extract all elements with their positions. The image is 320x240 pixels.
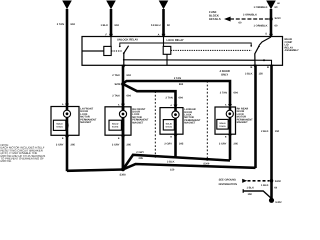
wire: 2 BLK 150 relay ground to G302 — [270, 65, 273, 200]
value label 2 GRY 295 — [112, 143, 132, 146]
wire through RH rear motor — [229, 107, 232, 135]
svg-text:SOLID: SOLID — [112, 123, 119, 126]
wire: unlock armature to pin at box bottom — [123, 53, 125, 65]
svg-text:G302: G302 — [275, 201, 282, 204]
wire: return bus LH front to splice — [67, 170, 123, 171]
svg-text:1 BLK: 1 BLK — [261, 184, 269, 187]
splice S302 — [270, 179, 282, 183]
svg-text:SOLID: SOLID — [166, 122, 173, 125]
svg-text:MAGNET: MAGNET — [184, 122, 195, 125]
svg-text:A: A — [62, 103, 64, 106]
ground G302 — [269, 198, 282, 204]
svg-text:DISTRIBUTION: DISTRIBUTION — [219, 183, 238, 186]
wire: 2 ORN/BLK 60 dashed off-page to fuse block — [224, 14, 270, 25]
pin B of RH rear motor — [225, 134, 232, 138]
wire: 2 TAN 694 branch to LH rear motor — [123, 84, 176, 107]
svg-text:SOLID: SOLID — [56, 123, 63, 126]
svg-text:60: 60 — [167, 24, 170, 27]
wire: 1 BLK 150 branch to ground — [243, 189, 271, 198]
svg-text:B: B — [118, 137, 120, 140]
svg-text:694: 694 — [127, 74, 132, 77]
svg-text:150: 150 — [259, 72, 264, 75]
value label 2 BLK 150 — [245, 72, 263, 75]
svg-text:1 ORN/BLK: 1 ORN/BLK — [254, 6, 268, 9]
wire: internal ground bus to right pin — [123, 59, 272, 65]
svg-text:295: 295 — [179, 142, 184, 145]
svg-text:MOTOR.: MOTOR. — [1, 159, 12, 163]
value label 1 BLK 694 — [101, 24, 120, 27]
svg-text:60: 60 — [277, 2, 280, 5]
svg-text:2 BLK: 2 BLK — [245, 72, 253, 75]
svg-text:2 BLK: 2 BLK — [261, 130, 269, 133]
value label 1 BLK 150 — [247, 184, 278, 196]
svg-text:2 TAN: 2 TAN — [165, 96, 172, 99]
pin B of LH rear motor — [170, 135, 177, 139]
wire: pin A to lock coil — [163, 37, 165, 47]
value label 1 ORN/BLK 60 (upper) — [254, 6, 278, 9]
wire: coil common to box edge — [82, 50, 104, 52]
svg-text:UNLOCK RELAY: UNLOCK RELAY — [117, 39, 138, 42]
value label 2 GRY 295 — [56, 143, 76, 146]
svg-text:STATE: STATE — [112, 126, 119, 129]
wire through LH rear motor — [174, 107, 177, 135]
value label 2 TAN 694 — [112, 74, 131, 77]
pin B of LH front motor — [62, 136, 69, 140]
svg-text:B: B — [62, 137, 64, 140]
splice S308 — [119, 168, 126, 177]
svg-text:150: 150 — [275, 130, 280, 133]
svg-text:LOCK RELAY: LOCK RELAY — [167, 39, 184, 42]
value label 2 BLK 150 — [261, 130, 280, 133]
svg-text:150: 150 — [248, 193, 253, 196]
svg-text:2 GRY: 2 GRY — [56, 143, 64, 146]
wire: 2 TAN 694 branch to RH rear motor — [123, 81, 230, 106]
wire: rear armature to pin B — [254, 54, 256, 65]
svg-text:60: 60 — [275, 24, 278, 27]
svg-text:1 BLK: 1 BLK — [247, 187, 255, 190]
wire: 2 TAN 694 feed to LH front motor — [66, 9, 69, 106]
svg-text:S208: S208 — [114, 83, 121, 86]
svg-text:SEE GROUND: SEE GROUND — [219, 179, 237, 182]
unlock relay coil — [104, 46, 111, 55]
splice S210 — [269, 17, 281, 21]
wire: 0.8 BLU 60 to lock relay pin A — [162, 9, 165, 37]
wire: 2 GRY 295 RH front motor return — [122, 135, 125, 169]
RH front door lock motor (box) — [105, 107, 131, 135]
svg-text:MAGNET: MAGNET — [80, 121, 91, 124]
wire through RH front motor — [122, 106, 125, 136]
svg-text:S210: S210 — [275, 17, 282, 20]
svg-text:60: 60 — [275, 6, 278, 9]
svg-text:2 BLK: 2 BLK — [167, 160, 175, 163]
svg-text:DETAILS: DETAILS — [209, 17, 221, 21]
wire through LH front motor — [66, 106, 69, 136]
svg-text:2 TAN: 2 TAN — [220, 92, 227, 95]
pin B (rear relay to ground bus) — [250, 65, 257, 69]
wire: rear doors return bus (2 GRY) — [123, 155, 230, 170]
wire: 1 BLK 694 to unlock relay pin F — [110, 9, 113, 37]
svg-text:S308: S308 — [119, 173, 126, 176]
svg-text:SOLID: SOLID — [219, 122, 226, 125]
svg-text:B: B — [267, 66, 269, 69]
pin B (relay box ground) — [267, 65, 274, 69]
4 DOOR ONLY divider (left dashed) — [154, 91, 156, 158]
svg-text:STATE: STATE — [56, 126, 63, 129]
value label 2 TAN 694 — [165, 96, 183, 99]
svg-text:A: A — [118, 103, 120, 106]
unlock relay fixed contact — [119, 43, 252, 47]
svg-text:S302: S302 — [275, 180, 282, 183]
svg-text:1 BLK: 1 BLK — [101, 24, 109, 27]
pin S (rear relay feed) — [265, 33, 273, 38]
svg-text:2 GRY: 2 GRY — [112, 143, 120, 146]
LH rear door lock motor (box) — [160, 108, 183, 135]
unlock relay armature — [123, 46, 129, 54]
svg-text:64: 64 — [274, 187, 277, 190]
svg-text:2 TAN: 2 TAN — [112, 74, 119, 77]
svg-text:1 ORN/BLK: 1 ORN/BLK — [254, 24, 268, 27]
svg-text:694: 694 — [71, 23, 76, 26]
label RH FRONT DOOR LOCK MOTOR PERMANENT MAGNET — [132, 108, 149, 125]
value label 2 GRY 295 — [136, 151, 144, 160]
svg-text:2 TAN: 2 TAN — [112, 95, 119, 98]
label SEE GROUND DISTRIBUTION — [219, 179, 238, 186]
wire: 2 TAN 694 relay output down to RH front motor — [122, 65, 125, 169]
wire: 2 GRY 295 LH rear motor return — [174, 134, 177, 157]
connector D (top triangle) — [266, 1, 276, 10]
wire: 2 GRY 295 RH rear motor return — [229, 134, 232, 160]
svg-text:2 TAN: 2 TAN — [57, 23, 64, 26]
svg-text:694: 694 — [115, 24, 120, 27]
unlock relay actuating dashed link — [111, 50, 121, 52]
value label 2 TAN 694 — [57, 23, 76, 26]
svg-text:ASSEMBLY: ASSEMBLY — [285, 49, 299, 52]
splice S309 — [203, 158, 210, 166]
lock relay actuating dashed link — [171, 49, 252, 51]
svg-text:295: 295 — [139, 157, 144, 160]
value label 1 ORN/BLK 60 (lower) — [254, 24, 278, 27]
pin A of LH front motor — [62, 103, 69, 107]
connector C (top triangle) — [159, 1, 169, 10]
rear relay armature — [255, 46, 259, 54]
svg-text:150: 150 — [170, 169, 175, 172]
svg-text:2 GRY: 2 GRY — [164, 142, 172, 145]
svg-text:694: 694 — [179, 83, 184, 86]
node: FUSE BLOCK DETAILS reference — [209, 10, 221, 21]
4 DOOR ONLY divider (right dashed) — [206, 81, 208, 158]
svg-text:B: B — [170, 136, 172, 139]
wire: pin F to unlock coil — [110, 37, 112, 47]
pin at box bottom (front doors feed) — [122, 65, 126, 68]
pin F (unlock relay coil feed) — [105, 34, 113, 38]
wire: 2 BLK 150 ground bus to relay assembly — [123, 164, 256, 169]
label 4 DOOR ONLY — [220, 70, 230, 76]
svg-text:B: B — [225, 135, 227, 138]
RH rear door lock motor (box) — [215, 107, 236, 134]
value label 2 GRY 295 — [164, 142, 184, 145]
svg-text:STATE: STATE — [219, 125, 226, 128]
svg-text:B: B — [250, 66, 252, 69]
svg-text:2 ORN/BLK: 2 ORN/BLK — [243, 14, 257, 17]
wire: dashed see ground distribution reference — [242, 179, 269, 183]
svg-text:S: S — [265, 33, 267, 36]
svg-text:MAGNET: MAGNET — [237, 121, 248, 124]
svg-text:A: A — [158, 34, 160, 37]
svg-text:2 TAN: 2 TAN — [174, 77, 181, 80]
label REAR COMP LID RELAY ASSEMBLY — [285, 38, 299, 52]
value label 2 GRY 295 — [219, 142, 239, 145]
wire: 1 ORN/BLK 60 battery feed — [270, 9, 273, 37]
svg-text:STATE: STATE — [166, 125, 173, 128]
svg-text:295: 295 — [234, 142, 239, 145]
label RH REAR DOOR LOCK MOTOR PERMANENT MAGNET — [237, 108, 254, 125]
svg-text:295: 295 — [71, 143, 76, 146]
value label 2 TAN 694 — [174, 77, 239, 94]
svg-text:MAGNET: MAGNET — [132, 121, 143, 124]
LH front door lock motor (box) — [51, 107, 79, 136]
splice S208 — [114, 82, 124, 86]
connector B (top triangle) — [106, 1, 116, 10]
svg-text:2 GRY: 2 GRY — [219, 142, 227, 145]
svg-text:0.8 BLU: 0.8 BLU — [151, 24, 161, 27]
svg-text:ONLY: ONLY — [221, 74, 228, 77]
value label 2 BLK 150 — [167, 160, 175, 171]
svg-text:694: 694 — [127, 95, 132, 98]
connector A (top triangle) — [62, 1, 72, 10]
wire: pin S to rear relay contact — [258, 37, 271, 47]
lock relay coil — [163, 46, 171, 54]
value label 2 TAN 694 — [112, 95, 131, 98]
pin A (lock relay coil feed) — [158, 34, 166, 38]
svg-text:694: 694 — [179, 96, 184, 99]
wire: 2 BLK 150 from relay pin B down — [254, 65, 257, 168]
wire: 2 GRY 295 LH front motor return — [66, 135, 69, 171]
wire: lock coil to box bottom — [166, 54, 168, 65]
pin B of RH front motor — [118, 136, 125, 140]
relay assembly box outline — [82, 37, 283, 66]
svg-text:295: 295 — [127, 143, 132, 146]
pin A of LH rear motor — [170, 104, 177, 108]
note text block — [1, 143, 46, 163]
pin A of RH rear motor — [225, 104, 232, 108]
svg-text:A: A — [225, 104, 227, 107]
pin A of RH front motor — [118, 103, 125, 107]
svg-text:A: A — [170, 104, 172, 107]
svg-text:2 GRY: 2 GRY — [136, 151, 144, 154]
svg-text:694: 694 — [234, 92, 239, 95]
value label 0.8 BLU 60 — [151, 24, 171, 27]
label LH REAR DOOR LOCK MOTOR PERMANENT MAGNET — [184, 108, 201, 125]
svg-text:60: 60 — [239, 22, 242, 25]
label LH FRONT DOOR LOCK MOTOR PERMANENT MAGNET — [80, 108, 97, 125]
